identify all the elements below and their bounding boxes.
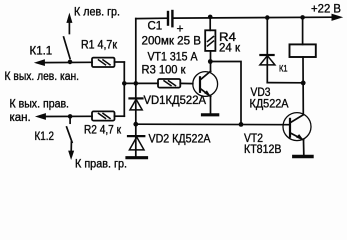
ground VT1 emitter — [203, 113, 218, 116]
svg-text:VD3: VD3 — [251, 87, 271, 99]
wire VD3 anode to collector node — [267, 82, 303, 84]
switch K1.2 stub — [69, 117, 71, 123]
node junction switch K1.1 — [68, 60, 73, 65]
svg-text:VD2 КД522А: VD2 КД522А — [149, 134, 211, 146]
transistor VT2 — [283, 113, 311, 141]
wire right output channel (left) — [44, 115, 92, 117]
wire VT1 emitter — [210, 96, 212, 113]
svg-text:КД522А: КД522А — [250, 99, 289, 111]
node junction R4-collector — [208, 59, 213, 64]
switch K1.1 blade — [64, 37, 70, 59]
node junction VD1-VD2 / base wire — [133, 122, 138, 127]
node arrow to right channel output — [36, 114, 45, 120]
diode VD1 — [130, 97, 143, 99]
svg-text:К1.2: К1.2 — [35, 131, 55, 143]
node junction relay top rail — [300, 15, 305, 20]
wire left vertical net (C1 minus / R-node / VD1 / VD2 chain) — [135, 19, 137, 156]
wire R3 to VT1 base — [180, 82, 193, 84]
node junction VD3-relay-collector — [301, 81, 306, 86]
svg-text:кан.: кан. — [10, 112, 31, 124]
wire collector node to VT2 base net — [210, 62, 241, 125]
resistor R1 — [92, 58, 115, 67]
ground VT2 emitter — [294, 155, 312, 158]
svg-text:200мк 25 В: 200мк 25 В — [142, 36, 202, 48]
node junction vertical-R3 — [134, 81, 139, 86]
wire relay top lead — [302, 17, 304, 44]
diode VD2 — [128, 135, 144, 137]
svg-text:С1: С1 — [148, 21, 163, 33]
svg-text:К вых. прав.: К вых. прав. — [10, 99, 70, 111]
wire +22V top rail left segment — [136, 17, 167, 19]
svg-text:КТ812В: КТ812В — [244, 144, 282, 156]
ground VD2 — [127, 156, 147, 159]
svg-text:R2 4,7 к: R2 4,7 к — [84, 125, 122, 137]
wire R1-R2 junction vertical — [123, 62, 125, 116]
svg-text:VD1КД522А: VD1КД522А — [144, 95, 207, 107]
transistor VT1 — [193, 72, 218, 97]
wire +22V top rail right segment — [173, 16, 333, 19]
wire VD1/VD2 node to VT2 base — [136, 123, 290, 126]
wire VT1 collector — [210, 51, 212, 72]
node junction switch K1.2 — [68, 114, 73, 119]
switch K1.1 arrow to left speaker — [68, 22, 70, 34]
wire left output channel (left) — [43, 61, 93, 63]
svg-text:К вых. лев. кан.: К вых. лев. кан. — [5, 71, 80, 83]
svg-text:К лев. гр.: К лев. гр. — [74, 7, 120, 19]
resistor R3 — [158, 79, 180, 88]
svg-text:К прав. гр.: К прав. гр. — [75, 159, 127, 171]
resistor R2 — [92, 111, 115, 120]
wire VT2 emitter — [303, 140, 305, 155]
svg-text:+: + — [177, 22, 184, 36]
svg-text:R1 4,7к: R1 4,7к — [81, 40, 118, 52]
wire relay bottom to VT2 collector — [302, 57, 304, 115]
node junction VD3 top rail — [265, 15, 270, 20]
relay K1 coil — [290, 44, 316, 57]
svg-text:R3 100 к: R3 100 к — [142, 65, 187, 77]
resistor R4 — [205, 30, 215, 51]
capacitor C1 — [167, 12, 169, 25]
node +22V rail arrow — [332, 14, 342, 20]
svg-text:К1: К1 — [279, 64, 288, 75]
svg-text:+22 В: +22 В — [311, 4, 341, 16]
diode VD3 — [266, 18, 268, 83]
svg-text:24 к: 24 к — [219, 43, 241, 55]
node arrow to left channel output — [35, 60, 44, 66]
svg-text:К1.1: К1.1 — [30, 46, 53, 58]
switch K1.2 arrow to right speaker — [70, 142, 72, 152]
node junction R1R2-R3 — [122, 81, 127, 86]
node junction R4 top rail — [208, 15, 213, 20]
switch K1.2 blade — [67, 127, 73, 142]
node junction base net — [239, 122, 244, 127]
wire R3 feed horizontal — [124, 82, 158, 84]
svg-text:VT1 315 А: VT1 315 А — [148, 52, 198, 64]
